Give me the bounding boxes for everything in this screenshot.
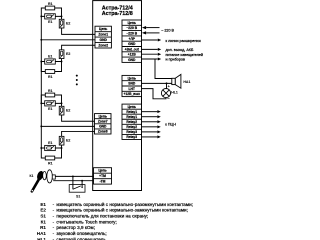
svg-text:Zone7: Zone7 (98, 119, 108, 123)
svg-text:GND: GND (99, 125, 107, 129)
svg-text:резистор 3,9 кОм;: резистор 3,9 кОм; (56, 225, 95, 230)
wire through detector E1 шлейф 2 (41, 61, 61, 63)
svg-text:HL1: HL1 (171, 91, 178, 95)
svg-text:LHT: LHT (129, 87, 135, 91)
svg-text:Zone1: Zone1 (98, 33, 108, 37)
wire +ЛР arrow (к линии расширения) (142, 39, 158, 41)
wire through detector E1 шлейф 1 (41, 15, 61, 17)
svg-text:R1: R1 (48, 161, 53, 165)
svg-text:Цепь: Цепь (98, 169, 106, 173)
svg-text:к ПЦН: к ПЦН (165, 123, 176, 127)
svg-text:извещатель охранный с нормальн: извещатель охранный с нормально-разомкну… (56, 201, 193, 207)
svg-text:GND: GND (128, 58, 136, 62)
terminal block (Цепь/Zone1/GND/Zone2) (95, 26, 111, 48)
svg-text:извещатель охранный с нормальн: извещатель охранный с нормально-замкнуты… (56, 207, 188, 213)
node шлейф 4 right (61, 147, 63, 149)
svg-text:-: - (53, 208, 55, 213)
svg-text:НА1: НА1 (37, 231, 47, 236)
wire S1 pin 2 (81, 181, 83, 188)
detector E1 (шлейф 4) (45, 145, 56, 150)
svg-text:К1: К1 (30, 174, 34, 178)
svg-text:~220 В: ~220 В (126, 26, 137, 30)
terminal block (Цепь/Zone7/GND/Zone8) (95, 114, 112, 134)
panel box Астра-712 (93, 1, 142, 191)
wire node to detector E2 (61, 141, 63, 148)
wire node to detector E2 (61, 16, 63, 23)
svg-text:Е1: Е1 (40, 202, 46, 207)
node GND bus 2 (40, 125, 42, 127)
wire E2 to zone terminal (62, 28, 95, 34)
svg-text:+: + (168, 85, 171, 89)
detector E1 (шлейф 1) (45, 14, 56, 19)
svg-text:Relay3: Relay3 (126, 130, 137, 134)
svg-text:Е1: Е1 (48, 54, 52, 58)
svg-text:SND: SND (128, 82, 136, 86)
svg-text:-: - (53, 219, 55, 224)
resistor R1 (шлейф 1) (45, 6, 54, 10)
wire GND row to speaker HA1 top (155, 59, 172, 79)
svg-text:К1: К1 (41, 219, 47, 224)
wire E2 to zone terminal (62, 131, 95, 136)
svg-text:Е2: Е2 (40, 208, 46, 213)
svg-text:R1: R1 (48, 2, 53, 6)
wire node to detector E2 (61, 54, 63, 61)
svg-text:~220 В: ~220 В (126, 31, 137, 35)
svg-text:Relay2: Relay2 (126, 125, 137, 129)
svg-text:Е1: Е1 (48, 141, 52, 145)
node шлейф 2 left (40, 61, 42, 63)
svg-text:Relay3: Relay3 (126, 135, 137, 139)
svg-text:и приборов: и приборов (166, 58, 185, 62)
terminal block (Цепь/+ТМ/-ТМ) (94, 168, 112, 184)
node шлейф 1 right (61, 15, 63, 17)
svg-text:Е2: Е2 (66, 21, 70, 25)
wire GND to block 2 (41, 125, 94, 127)
key K1 (считыватель Touch memory) (32, 170, 56, 192)
detector E1 (шлейф 3) (45, 101, 56, 106)
svg-text:S1: S1 (40, 214, 46, 219)
wire E2 to zone terminal (62, 115, 95, 121)
svg-text:Zone2: Zone2 (98, 43, 108, 47)
detector E2 (шлейф 4) (59, 136, 64, 145)
svg-text:Цепь: Цепь (128, 105, 136, 109)
lamp HL1 (161, 89, 170, 98)
wire junction down to lamp HL1 (+) (166, 83, 168, 88)
svg-text:Е2: Е2 (66, 52, 70, 56)
resistor R1 (шлейф 4) (45, 156, 54, 160)
svg-text:Цепь: Цепь (128, 21, 136, 25)
svg-text:R1: R1 (48, 75, 53, 79)
svg-text:~ 220 В: ~ 220 В (161, 29, 174, 33)
node GND bus 1 (40, 39, 42, 41)
svg-text:Цепь: Цепь (128, 76, 136, 80)
wire through detector E1 шлейф 3 (41, 102, 61, 104)
wire node to detector E2 (61, 103, 63, 110)
svg-text:+12В_вых: +12В_вых (124, 92, 141, 96)
node шлейф 4 left (40, 147, 42, 149)
svg-text:Е2: Е2 (66, 139, 70, 143)
svg-text:S1: S1 (76, 195, 80, 199)
node шлейф 3 left (40, 102, 42, 104)
wire Relay2 contact arrow to ПЦН (142, 121, 158, 123)
svg-text:R1: R1 (48, 89, 53, 93)
wire R1 loop шлейф 4 (41, 148, 45, 158)
svg-text:–: – (167, 97, 170, 101)
svg-text:Астра-712/8: Астра-712/8 (102, 11, 133, 17)
wire K1 to -ТМ (53, 180, 93, 182)
svg-text:+12В: +12В (128, 53, 137, 57)
svg-text:Relay1: Relay1 (126, 115, 137, 119)
wire S1 pin 1 (72, 176, 74, 189)
resistor R1 (шлейф 2) (45, 70, 54, 74)
wire Relay3 contact arrow to ПЦН (142, 131, 158, 133)
svg-text:-ТМ: -ТМ (100, 180, 106, 184)
detector E1 (шлейф 2) (45, 59, 56, 64)
wire Relay2 contact arrow to ПЦН (142, 126, 158, 128)
svg-text:доп. выход, АКБ: доп. выход, АКБ (166, 48, 194, 52)
wire E2 to zone terminal (62, 45, 95, 50)
title Астра-712/4 / Астра-712/8 (102, 5, 133, 17)
svg-text:+ТМ: +ТМ (99, 174, 106, 178)
switch S1 (69, 185, 85, 193)
wire Relay3 contact arrow to ПЦН (142, 136, 158, 138)
wire Relay1 contact arrow to ПЦН (142, 111, 158, 113)
svg-text:к линии расширения: к линии расширения (166, 39, 201, 43)
svg-text:GND: GND (100, 38, 108, 42)
wire through detector E1 шлейф 4 (41, 147, 61, 149)
detector E2 (шлейф 2) (59, 50, 64, 59)
svg-text:+Bat_out: +Bat_out (125, 47, 140, 51)
svg-text:+ЛР: +ЛР (129, 37, 136, 41)
svg-text:Zone8: Zone8 (98, 130, 108, 134)
node S1 top (72, 175, 74, 177)
wire GND bus (left common) (40, 16, 42, 148)
svg-text:-: - (53, 202, 55, 207)
ellipsis dots between loops (76, 75, 78, 77)
svg-text:Цепь: Цепь (99, 27, 107, 31)
resistor R1 (шлейф 3) (45, 93, 54, 97)
svg-text:звуковой оповещатель;: звуковой оповещатель; (56, 230, 106, 236)
wire R1 loop шлейф 2 (41, 62, 45, 72)
node junction speaker/lamp (166, 82, 168, 84)
wire Relay1 contact arrow to ПЦН (142, 116, 158, 118)
node шлейф 2 right (61, 61, 63, 63)
wire +12В arrow (142, 53, 158, 55)
svg-text:GND: GND (128, 42, 136, 46)
node шлейф 3 right (61, 102, 63, 104)
svg-text:НА1: НА1 (183, 80, 190, 84)
svg-text:питание извещателей: питание извещателей (166, 53, 204, 57)
node S1 bottom (81, 180, 83, 182)
svg-text:Е2: Е2 (66, 108, 70, 112)
wire ~220 V line 1 with arrow (146, 27, 159, 29)
svg-text:Relay2: Relay2 (126, 120, 137, 124)
wire K1 to +ТМ (55, 175, 93, 177)
svg-text:R1: R1 (40, 225, 46, 230)
svg-text:считыватель Touch memory;: считыватель Touch memory; (56, 219, 116, 224)
wire R1 loop шлейф 1 (41, 8, 45, 16)
svg-text:-: - (53, 225, 55, 230)
wire LHT row to lamp HL1 bottom (142, 89, 167, 99)
wire ~220 V line 2 with arrow (146, 32, 159, 34)
speaker HA1 (172, 74, 181, 88)
terminal block relays (к ПЦН) (122, 104, 142, 139)
svg-text:Е1: Е1 (48, 20, 52, 24)
node шлейф 1 left (40, 15, 42, 17)
wire R1 loop шлейф 3 (41, 95, 45, 103)
svg-text:Е1: Е1 (48, 107, 52, 111)
wire GND arrow (142, 58, 158, 60)
svg-text:световой оповещатель: световой оповещатель (56, 236, 106, 240)
svg-text:переключатель для постановки н: переключатель для постановки на охрану; (56, 214, 148, 219)
svg-text:-: - (53, 231, 55, 236)
detector E2 (шлейф 1) (59, 19, 64, 28)
legend (37, 201, 193, 240)
detector E2 (шлейф 3) (59, 106, 64, 115)
terminal block outputs (SND/LHT) (122, 75, 142, 96)
svg-text:Цепь: Цепь (99, 114, 107, 118)
terminal block power (~220В/+ЛР/GND/+12В) (122, 20, 142, 62)
svg-text:-: - (53, 214, 55, 219)
wire SND row to junction and speaker (142, 82, 172, 84)
wire GND to block 1 (41, 39, 95, 41)
svg-text:Relay1: Relay1 (126, 110, 137, 114)
wire +Bat_out arrow (142, 48, 158, 50)
